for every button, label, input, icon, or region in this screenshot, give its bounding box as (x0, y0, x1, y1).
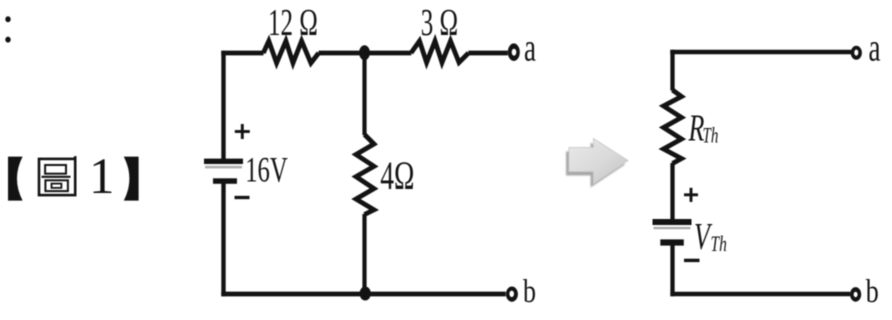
wire: left circuit bottom horizontal (221, 292, 505, 297)
caption character 圖 (hand-drawn strokes) (39, 156, 75, 195)
svg-text:Th: Th (703, 124, 719, 148)
svg-text:12 Ω: 12 Ω (268, 1, 318, 44)
svg-text:1: 1 (89, 149, 115, 205)
wire: middle vertical upper (node to 4Ω) (362, 52, 366, 135)
resistor 3Ω zigzag (411, 41, 469, 63)
wire: middle vertical lower (4Ω to bottom node) (362, 214, 366, 294)
svg-text:a: a (524, 27, 536, 70)
terminal a (left circuit, open circle) (508, 43, 520, 61)
svg-text:b: b (866, 274, 879, 309)
battery VTh short plate (660, 239, 684, 245)
label − of 16V source (235, 196, 250, 199)
transform arrow (gray block arrow) body (569, 139, 628, 184)
node dot bottom (junction of 4Ω and bottom wire) (360, 287, 371, 301)
resistor 4Ω zigzag (356, 135, 374, 215)
wire: right circuit top horizontal (670, 50, 851, 55)
battery 16V plate shadow (gray) (205, 166, 242, 169)
wire: right circuit bottom horizontal (670, 292, 850, 297)
wire: left vertical from top wire to battery (221, 51, 225, 159)
label + of VTh source (684, 188, 698, 202)
wire: right vertical from RTh to battery VTh (670, 163, 674, 220)
terminal b (left circuit, open circle) (506, 287, 518, 302)
label + of 16V source (235, 124, 250, 139)
svg-text:a: a (869, 27, 881, 70)
transform arrow (gray block arrow) shadow (566, 143, 625, 188)
svg-text:16V: 16V (245, 150, 288, 190)
wire: left vertical from battery to bottom wire (221, 184, 225, 297)
resistor 12Ω zigzag (263, 41, 318, 63)
label RTh (688, 108, 719, 150)
svg-text:Th: Th (711, 232, 727, 256)
terminal a (right circuit, open circle) (851, 46, 862, 60)
battery VTh long plate (653, 219, 692, 225)
battery 16V long plate (204, 159, 243, 164)
svg-text:b: b (523, 274, 536, 309)
svg-text:4Ω: 4Ω (380, 154, 414, 198)
wire: top segment from 12Ω to 3Ω through node (319, 51, 412, 56)
battery VTh plate shadow (gray) (654, 227, 691, 229)
resistor RTh zigzag (664, 90, 682, 164)
label VTh (694, 216, 727, 258)
node dot top (junction of 12Ω, 3Ω, 4Ω) (359, 45, 370, 60)
caption left bracket 【 (8, 157, 23, 201)
svg-text:3 Ω: 3 Ω (421, 1, 458, 44)
caption right bracket 】 (124, 157, 139, 201)
colon punctuation at top-left (5, 16, 10, 42)
wire: 3Ω to terminal a (468, 51, 508, 56)
label − of VTh source (684, 259, 700, 262)
wire: right vertical from top wire to RTh (670, 50, 674, 91)
wire: left circuit top-left segment (221, 51, 263, 56)
terminal b (right circuit, open circle) (850, 287, 861, 302)
wire: right vertical from battery to bottom wire (670, 246, 674, 297)
battery 16V short plate (213, 178, 237, 184)
